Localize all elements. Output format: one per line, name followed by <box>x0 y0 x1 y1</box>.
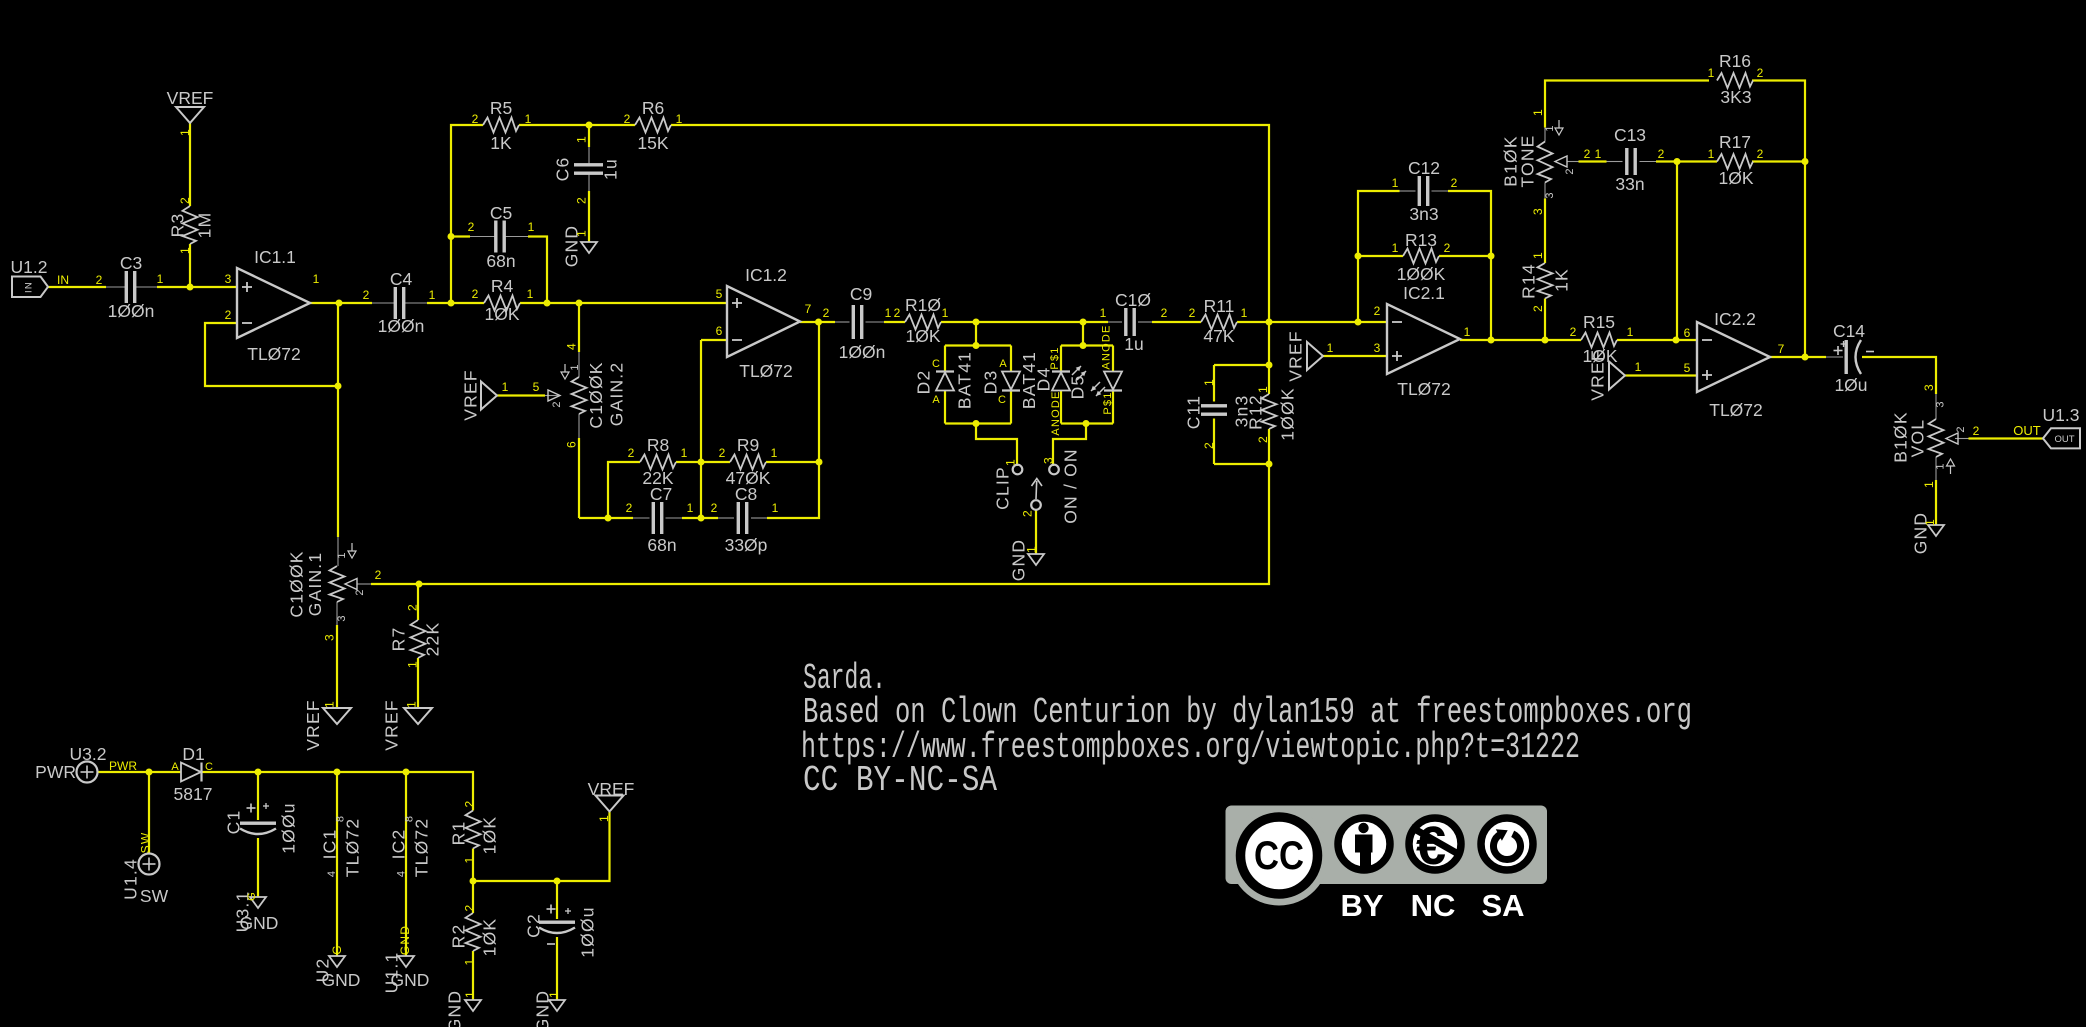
svg-text:2: 2 <box>354 588 366 595</box>
svg-text:2: 2 <box>1189 306 1196 320</box>
svg-text:OUT: OUT <box>2054 434 2074 445</box>
svg-text:R7: R7 <box>388 627 408 652</box>
svg-text:1: 1 <box>527 287 534 301</box>
svg-text:1: 1 <box>1531 251 1545 259</box>
svg-text:C12: C12 <box>1408 158 1440 178</box>
svg-text:1u: 1u <box>1124 334 1143 354</box>
svg-text:2: 2 <box>472 287 479 301</box>
svg-text:2: 2 <box>823 306 830 320</box>
svg-text:TLØ72: TLØ72 <box>1397 379 1451 399</box>
svg-text:R5: R5 <box>490 98 512 118</box>
svg-text:1: 1 <box>676 112 683 126</box>
svg-text:R15: R15 <box>1583 312 1615 332</box>
svg-text:1: 1 <box>1327 341 1334 355</box>
svg-text:IC1.2: IC1.2 <box>745 265 787 285</box>
svg-text:PWR: PWR <box>109 759 137 773</box>
svg-text:1: 1 <box>1708 147 1715 161</box>
svg-text:U1.2: U1.2 <box>11 257 48 277</box>
svg-text:2: 2 <box>1374 304 1381 318</box>
svg-text:P$1: P$1 <box>1049 346 1061 369</box>
svg-text:2: 2 <box>1202 441 1216 449</box>
svg-text:SW: SW <box>140 886 169 906</box>
svg-text:GND: GND <box>322 970 361 990</box>
svg-text:1: 1 <box>1003 458 1017 466</box>
svg-text:BY: BY <box>1340 888 1383 923</box>
svg-text:1ØØn: 1ØØn <box>839 342 886 362</box>
svg-text:3: 3 <box>225 272 232 286</box>
svg-text:R9: R9 <box>737 435 759 455</box>
svg-text:GND: GND <box>444 990 464 1027</box>
svg-text:IC2.2: IC2.2 <box>1714 309 1756 329</box>
svg-text:R8: R8 <box>647 435 669 455</box>
svg-text:G: G <box>246 891 258 901</box>
svg-text:NC: NC <box>1411 888 1456 923</box>
svg-text:2: 2 <box>894 306 901 320</box>
svg-text:1: 1 <box>1241 306 1248 320</box>
svg-text:C1ØØK: C1ØØK <box>286 550 306 617</box>
svg-text:C6: C6 <box>552 157 572 182</box>
svg-text:1: 1 <box>1464 325 1471 339</box>
svg-text:OUT: OUT <box>2013 423 2041 438</box>
svg-text:1: 1 <box>569 363 581 370</box>
svg-text:2: 2 <box>462 904 476 912</box>
svg-text:R11: R11 <box>1204 296 1235 316</box>
svg-text:1: 1 <box>1392 176 1399 190</box>
svg-text:3: 3 <box>336 614 348 621</box>
svg-text:R13: R13 <box>1405 230 1437 250</box>
svg-text:CC BY-NC-SA: CC BY-NC-SA <box>803 760 997 801</box>
svg-text:C5: C5 <box>490 203 512 223</box>
svg-text:GND: GND <box>398 925 412 955</box>
svg-text:U1.3: U1.3 <box>2043 405 2080 425</box>
svg-text:7: 7 <box>805 302 812 316</box>
svg-text:1ØK: 1ØK <box>479 918 499 957</box>
svg-text:5: 5 <box>716 287 723 301</box>
svg-text:2: 2 <box>1020 509 1034 517</box>
svg-text:1: 1 <box>1595 147 1602 161</box>
svg-text:U1.4: U1.4 <box>120 858 140 900</box>
svg-text:VREF: VREF <box>460 369 480 420</box>
svg-text:C: C <box>932 358 940 370</box>
svg-text:VOL: VOL <box>1907 419 1927 458</box>
svg-text:1ØØK: 1ØØK <box>1277 387 1297 440</box>
svg-text:2: 2 <box>719 446 726 460</box>
svg-text:3: 3 <box>1374 341 1381 355</box>
svg-text:2: 2 <box>472 112 479 126</box>
svg-text:1ØØu: 1ØØu <box>577 906 597 958</box>
svg-text:R14: R14 <box>1518 263 1538 299</box>
svg-text:C1ØØK: C1ØØK <box>586 361 606 428</box>
svg-text:2: 2 <box>178 196 192 204</box>
svg-text:1M: 1M <box>194 212 214 239</box>
svg-text:2: 2 <box>462 800 476 808</box>
svg-text:ANODE: ANODE <box>1100 324 1112 369</box>
svg-text:IN: IN <box>57 273 69 287</box>
svg-text:1: 1 <box>178 128 192 136</box>
svg-text:R2: R2 <box>448 924 468 949</box>
svg-text:33Øp: 33Øp <box>725 535 768 555</box>
svg-text:3: 3 <box>1531 207 1545 215</box>
svg-text:3: 3 <box>1041 456 1055 464</box>
svg-text:68n: 68n <box>486 251 515 271</box>
svg-text:1ØØn: 1ØØn <box>378 316 425 336</box>
svg-text:1: 1 <box>771 446 778 460</box>
svg-text:1: 1 <box>772 501 779 515</box>
svg-text:2: 2 <box>1955 425 1967 432</box>
svg-text:2: 2 <box>574 196 588 204</box>
svg-text:1: 1 <box>1100 306 1107 320</box>
svg-text:4: 4 <box>395 870 407 877</box>
svg-text:1: 1 <box>462 958 476 966</box>
svg-text:2: 2 <box>405 603 419 611</box>
svg-text:R4: R4 <box>491 276 514 296</box>
svg-text:TLØ72: TLØ72 <box>342 818 362 878</box>
svg-text:5: 5 <box>1684 361 1691 375</box>
svg-text:C4: C4 <box>390 269 413 289</box>
svg-text:C11: C11 <box>1183 395 1203 429</box>
svg-text:1ØK: 1ØK <box>484 304 519 324</box>
svg-text:C8: C8 <box>735 484 757 504</box>
svg-text:68n: 68n <box>647 535 676 555</box>
svg-text:3K3: 3K3 <box>1720 87 1751 107</box>
svg-text:GND: GND <box>240 913 279 933</box>
svg-text:1K: 1K <box>490 133 512 153</box>
svg-text:1: 1 <box>574 135 588 143</box>
svg-text:1ØØn: 1ØØn <box>108 301 155 321</box>
svg-text:2: 2 <box>225 308 232 322</box>
svg-text:2: 2 <box>628 446 635 460</box>
svg-text:G: G <box>330 944 344 955</box>
svg-text:2: 2 <box>363 288 370 302</box>
svg-text:VREF: VREF <box>1285 330 1305 381</box>
svg-text:R1Ø: R1Ø <box>905 295 941 315</box>
svg-text:6: 6 <box>1684 326 1691 340</box>
svg-text:3: 3 <box>1934 400 1946 407</box>
svg-text:1: 1 <box>547 990 561 998</box>
svg-text:GND: GND <box>391 970 430 990</box>
svg-text:6: 6 <box>716 324 723 338</box>
svg-text:2: 2 <box>1584 147 1591 161</box>
svg-text:VREF: VREF <box>588 779 635 799</box>
svg-text:47K: 47K <box>1203 326 1234 346</box>
svg-text:1: 1 <box>502 380 509 394</box>
svg-text:1: 1 <box>942 306 949 320</box>
svg-text:1ØK: 1ØK <box>479 816 499 855</box>
svg-text:1ØØK: 1ØØK <box>1397 264 1446 284</box>
svg-text:D2: D2 <box>913 370 933 395</box>
svg-text:1: 1 <box>687 501 694 515</box>
svg-text:2: 2 <box>1757 147 1764 161</box>
svg-text:ANODE: ANODE <box>1050 390 1062 435</box>
svg-text:1: 1 <box>405 660 419 668</box>
svg-text:1: 1 <box>404 700 418 708</box>
svg-text:1: 1 <box>1708 66 1715 80</box>
svg-text:1: 1 <box>525 112 532 126</box>
svg-text:2: 2 <box>375 568 382 582</box>
svg-text:2: 2 <box>1973 424 1980 438</box>
svg-text:CLIP: CLIP <box>992 466 1012 510</box>
svg-text:1: 1 <box>528 220 535 234</box>
svg-text:6: 6 <box>564 440 578 448</box>
svg-text:TLØ72: TLØ72 <box>411 818 431 878</box>
svg-text:P$1: P$1 <box>1102 391 1114 414</box>
svg-text:R3: R3 <box>167 213 187 238</box>
svg-text:1: 1 <box>1635 360 1642 374</box>
svg-text:VREF: VREF <box>1587 349 1607 400</box>
svg-text:2: 2 <box>1658 147 1665 161</box>
svg-text:VREF: VREF <box>381 699 401 750</box>
svg-text:1ØK: 1ØK <box>905 326 940 346</box>
svg-text:C: C <box>998 394 1006 406</box>
svg-text:GAIN.1: GAIN.1 <box>305 552 325 617</box>
svg-text:2: 2 <box>711 501 718 515</box>
svg-text:7: 7 <box>1778 342 1785 356</box>
svg-text:1K: 1K <box>1551 268 1571 292</box>
svg-text:1: 1 <box>1922 480 1936 488</box>
svg-text:3: 3 <box>1922 383 1936 391</box>
svg-text:15K: 15K <box>637 133 668 153</box>
svg-text:4: 4 <box>564 342 578 350</box>
svg-text:TONE: TONE <box>1517 134 1537 187</box>
svg-text:IC2: IC2 <box>388 829 408 860</box>
svg-text:C13: C13 <box>1614 125 1646 145</box>
svg-text:1: 1 <box>574 229 588 237</box>
svg-text:3: 3 <box>1544 191 1556 198</box>
svg-text:VREF: VREF <box>167 88 214 108</box>
svg-text:TLØ72: TLØ72 <box>247 344 301 364</box>
svg-text:D1: D1 <box>182 744 204 764</box>
svg-text:TLØ72: TLØ72 <box>1709 400 1763 420</box>
svg-text:2: 2 <box>1256 435 1270 443</box>
svg-text:R17: R17 <box>1719 132 1751 152</box>
svg-text:1: 1 <box>313 272 320 286</box>
svg-text:1: 1 <box>336 551 348 558</box>
svg-text:R6: R6 <box>642 98 664 118</box>
svg-text:BAT41: BAT41 <box>954 351 974 409</box>
svg-text:5: 5 <box>533 380 540 394</box>
svg-text:1: 1 <box>1923 518 1937 526</box>
svg-text:D3: D3 <box>980 370 1000 395</box>
svg-text:C1: C1 <box>223 810 243 835</box>
svg-text:CC: CC <box>1254 834 1304 878</box>
svg-text:3n3: 3n3 <box>1409 204 1438 224</box>
svg-text:4: 4 <box>326 870 338 877</box>
svg-text:1: 1 <box>1256 385 1270 393</box>
svg-text:1: 1 <box>462 856 476 864</box>
svg-text:1: 1 <box>681 446 688 460</box>
svg-text:PWR: PWR <box>35 762 76 782</box>
svg-text:SW: SW <box>138 832 152 854</box>
svg-text:1: 1 <box>597 814 611 822</box>
svg-text:2: 2 <box>551 400 563 407</box>
svg-text:TLØ72: TLØ72 <box>739 361 793 381</box>
svg-text:3: 3 <box>322 633 336 641</box>
svg-text:1: 1 <box>1627 325 1634 339</box>
svg-text:2: 2 <box>1451 176 1458 190</box>
svg-text:2: 2 <box>1531 304 1545 312</box>
svg-text:R1: R1 <box>448 821 468 846</box>
svg-text:5817: 5817 <box>174 784 213 804</box>
svg-text:1: 1 <box>463 990 477 998</box>
svg-text:2: 2 <box>624 112 631 126</box>
svg-text:SA: SA <box>1481 888 1524 923</box>
svg-text:IN: IN <box>23 281 34 293</box>
svg-text:VREF: VREF <box>303 699 323 750</box>
svg-text:ON / ON: ON / ON <box>1060 448 1080 524</box>
svg-text:2: 2 <box>1570 325 1577 339</box>
svg-text:GAIN.2: GAIN.2 <box>606 362 626 427</box>
svg-text:IC1: IC1 <box>319 829 339 860</box>
svg-text:1: 1 <box>157 272 164 286</box>
svg-text:1: 1 <box>322 700 336 708</box>
svg-text:A: A <box>171 761 179 773</box>
svg-text:1ØK: 1ØK <box>1718 168 1753 188</box>
svg-text:2: 2 <box>1564 167 1576 174</box>
svg-text:IC2.1: IC2.1 <box>1403 283 1445 303</box>
svg-text:C7: C7 <box>650 484 672 504</box>
svg-text:22K: 22K <box>422 622 442 657</box>
svg-text:R12: R12 <box>1245 394 1265 430</box>
svg-text:A: A <box>932 394 940 406</box>
svg-text:1: 1 <box>178 246 192 254</box>
svg-text:U3.2: U3.2 <box>70 744 107 764</box>
svg-text:2: 2 <box>1444 241 1451 255</box>
svg-text:C14: C14 <box>1833 321 1865 341</box>
svg-text:C2: C2 <box>523 913 543 938</box>
svg-text:1: 1 <box>1934 462 1946 469</box>
svg-text:C: C <box>205 761 213 773</box>
svg-text:1u: 1u <box>600 158 620 180</box>
svg-text:C3: C3 <box>120 253 142 273</box>
svg-text:D5: D5 <box>1067 375 1087 400</box>
svg-text:C9: C9 <box>850 284 872 304</box>
svg-text:2: 2 <box>1161 306 1168 320</box>
svg-text:1Øu: 1Øu <box>1834 375 1867 395</box>
svg-text:C1Ø: C1Ø <box>1115 290 1151 310</box>
svg-text:R16: R16 <box>1719 51 1751 71</box>
svg-text:1: 1 <box>1024 545 1038 553</box>
svg-text:IC1.1: IC1.1 <box>254 247 296 267</box>
svg-text:33n: 33n <box>1615 174 1644 194</box>
svg-text:1ØØu: 1ØØu <box>278 802 298 854</box>
svg-text:1: 1 <box>1544 124 1556 131</box>
svg-text:1: 1 <box>1392 241 1399 255</box>
svg-text:1: 1 <box>1202 378 1216 386</box>
svg-text:2: 2 <box>1757 66 1764 80</box>
svg-text:A: A <box>999 358 1007 370</box>
svg-text:2: 2 <box>626 501 633 515</box>
svg-text:1: 1 <box>429 288 436 302</box>
svg-text:1: 1 <box>1531 108 1545 116</box>
svg-text:1: 1 <box>885 306 892 320</box>
svg-text:2: 2 <box>468 220 475 234</box>
svg-text:2: 2 <box>96 273 103 287</box>
